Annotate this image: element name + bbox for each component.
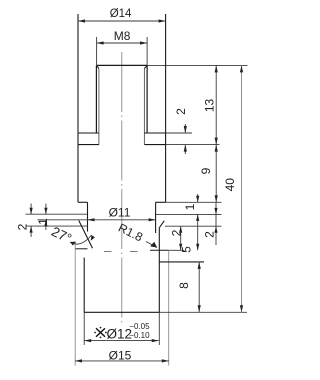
dimension 2 right inner (groove to chamfer) — [180, 226, 182, 250]
svg-text:2: 2 — [169, 229, 183, 236]
svg-text:5: 5 — [179, 246, 193, 253]
dimension 2 right outer — [215, 202, 217, 245]
svg-text:R1.8: R1.8 — [116, 221, 145, 245]
reference mark symbol — [96, 328, 105, 337]
extension line from top face to right dims — [147, 64, 247, 66]
dimension O15 line — [75, 360, 169, 362]
body right side O14 — [165, 14, 167, 202]
O11 left wall — [87, 202, 89, 231]
dimension 2 left (outer) — [30, 204, 32, 215]
face line y144.6 left — [78, 144, 99, 146]
O15 right edge line — [168, 250, 170, 366]
svg-text:Ø12: Ø12 — [107, 326, 133, 341]
svg-text:8: 8 — [177, 282, 191, 289]
svg-text:Ø15: Ø15 — [109, 348, 132, 362]
line y262 for 8 dim — [159, 261, 204, 263]
svg-text:27°: 27° — [49, 224, 74, 246]
svg-text:40: 40 — [223, 178, 237, 192]
groove line C right extension — [165, 225, 222, 227]
dimension M8 extension lines — [96, 37, 98, 65]
dimension O14 line — [78, 20, 166, 22]
hidden dash left — [104, 251, 112, 253]
thread thin line right — [143, 69, 145, 145]
shoulder line y133 left — [78, 132, 99, 134]
dimension 1 right — [197, 194, 199, 202]
extension line y250 right for dims — [169, 249, 185, 251]
shoulder2 left — [78, 201, 88, 203]
svg-text:M8: M8 — [114, 29, 131, 43]
chamfer bottom right — [150, 249, 169, 251]
svg-text:2: 2 — [16, 223, 30, 230]
chamfer 27deg line left — [79, 221, 93, 249]
dimension 8 line — [198, 262, 200, 312]
groove line A right extension — [156, 213, 222, 215]
hidden dash right — [130, 251, 138, 253]
svg-text:13: 13 — [202, 99, 216, 113]
dimension 13 line — [215, 65, 217, 144]
leader R1.8 — [146, 242, 157, 248]
centerline axis — [121, 52, 123, 326]
bottom face extension right — [159, 311, 247, 313]
outline stud right side — [146, 65, 148, 133]
O15 left edge line — [74, 241, 76, 365]
dimension 1 left — [45, 204, 47, 215]
face line y144.6 right with extension — [144, 144, 165, 146]
svg-text:2: 2 — [174, 108, 188, 115]
O12 left wall — [83, 258, 85, 313]
shoulder2 right with extension — [156, 201, 166, 203]
dimension M8 line — [97, 42, 148, 44]
O12 left extension to dim — [83, 312, 85, 345]
chamfer line right — [159, 221, 164, 228]
angle 27 arc — [70, 235, 92, 244]
dimension 2 (stud relief) — [184, 124, 186, 133]
groove line C left extension — [26, 225, 88, 227]
dimension 40 line — [241, 65, 243, 312]
thread thin line left — [98, 69, 100, 145]
outline stud left side — [95, 65, 97, 133]
svg-text:1: 1 — [183, 203, 197, 210]
chamfer bottom left — [75, 248, 87, 250]
svg-text:Ø11: Ø11 — [109, 206, 131, 220]
dimension O12 line — [84, 340, 159, 342]
outline top face M8 stud — [96, 64, 147, 66]
body left side O14 — [77, 14, 79, 202]
groove line A left extension — [26, 213, 88, 215]
shoulder line y133 right with extension — [144, 132, 165, 134]
dimension O11 line — [38, 219, 156, 221]
dimension 5 bottom arrow on same line — [196, 244, 199, 251]
svg-text:−0.10: −0.10 — [129, 331, 150, 340]
O11 right wall — [155, 202, 157, 233]
stud top chamfer left — [96, 65, 99, 68]
stud top chamfer right — [144, 65, 147, 68]
svg-text:9: 9 — [199, 167, 213, 174]
O12 right extension to dim — [158, 312, 160, 345]
dimension 9 line — [215, 145, 217, 203]
O12 right wall upper — [158, 228, 160, 313]
svg-text:Ø14: Ø14 — [110, 8, 132, 20]
svg-text:−0.05: −0.05 — [129, 322, 150, 331]
svg-text:2: 2 — [202, 231, 216, 238]
svg-text:1: 1 — [36, 218, 50, 225]
bottom face — [84, 311, 159, 313]
